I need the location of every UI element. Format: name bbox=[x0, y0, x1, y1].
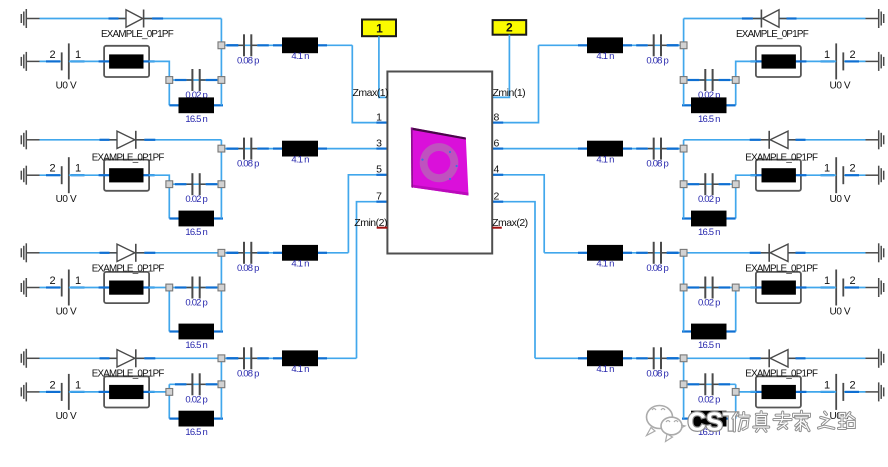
node Zmin(2) dangling bbox=[354, 217, 387, 229]
wire row1L to pin1 bbox=[352, 45, 387, 122]
wire row2R down to inductor bbox=[735, 184, 737, 218]
svg-text:2: 2 bbox=[849, 275, 855, 287]
svg-text:8: 8 bbox=[494, 111, 500, 123]
wire row4R battery to block bbox=[801, 391, 836, 393]
diode D4R bbox=[750, 349, 806, 367]
wire row1L block out bbox=[149, 61, 169, 80]
svg-text:0.08 p: 0.08 p bbox=[237, 55, 259, 66]
svg-text:0.08 p: 0.08 p bbox=[646, 55, 668, 66]
inductor L414L bbox=[273, 350, 327, 375]
voltage source V4L U0 V bbox=[46, 374, 85, 422]
wire row4R bus bbox=[683, 358, 685, 418]
svg-text:16.5 n: 16.5 n bbox=[185, 227, 207, 238]
svg-text:16.5 n: 16.5 n bbox=[185, 427, 207, 438]
svg-text:2: 2 bbox=[506, 21, 513, 35]
capacitor C084L bbox=[227, 347, 269, 379]
wire row2L bus bbox=[220, 140, 222, 219]
wire row1L battery to block bbox=[69, 60, 104, 62]
svg-text:U0 V: U0 V bbox=[830, 194, 851, 205]
svg-text:EXAMPLE_0P1PF: EXAMPLE_0P1PF bbox=[745, 263, 818, 274]
svg-text:1: 1 bbox=[824, 275, 830, 287]
block X4R EXAMPLE_0P1PF bbox=[745, 369, 818, 408]
patch antenna preview (magenta) bbox=[411, 127, 469, 195]
diode D2R bbox=[750, 131, 806, 149]
wire row2L inductor line bbox=[169, 218, 221, 220]
capacitor C022L bbox=[175, 173, 217, 205]
wire row4L branch line bbox=[221, 357, 356, 359]
junction node row3L cap tap bbox=[218, 284, 225, 291]
wire branch pin dash bbox=[226, 148, 238, 150]
wire row4R to pin2 bbox=[492, 202, 535, 359]
wire row3L to pin5 bbox=[348, 175, 387, 253]
svg-text:3: 3 bbox=[376, 137, 382, 149]
inductor L1654R bbox=[682, 411, 736, 438]
inductor L1653R bbox=[682, 324, 736, 351]
wire row2R branch line bbox=[492, 148, 683, 150]
svg-text:0.02 p: 0.02 p bbox=[698, 194, 720, 205]
wire row3R bus bbox=[683, 253, 685, 332]
watermark logo: two chat bubbles bbox=[647, 406, 686, 442]
junction node row1R branch tap bbox=[680, 42, 687, 49]
inductor L1654L bbox=[170, 411, 224, 438]
pin 3 stub bbox=[376, 148, 387, 150]
svg-text:16.5 n: 16.5 n bbox=[185, 340, 207, 351]
wire row2L branch line bbox=[221, 148, 387, 150]
block X1R EXAMPLE_0P1PF bbox=[736, 29, 809, 77]
wire row2L diode line bbox=[40, 139, 222, 141]
svg-text:2: 2 bbox=[49, 275, 55, 287]
junction node row4L cap tap bbox=[218, 381, 225, 388]
wire row1L gnd to battery bbox=[40, 60, 62, 62]
svg-text:1: 1 bbox=[824, 379, 830, 391]
svg-text:0.08 p: 0.08 p bbox=[646, 159, 668, 170]
svg-text:16.5 n: 16.5 n bbox=[185, 114, 207, 125]
wire branch pin dash bbox=[667, 357, 679, 359]
wire row1R battery to block bbox=[801, 60, 836, 62]
wire row1R to pin8 bbox=[492, 45, 538, 122]
ground (row1 diode line L) bbox=[21, 9, 39, 28]
wire row2R battery to block bbox=[801, 174, 836, 176]
wire row4R gnd to battery bbox=[843, 391, 865, 393]
ground (row3 diode line R) bbox=[866, 243, 884, 262]
svg-text:4.1 n: 4.1 n bbox=[596, 364, 614, 375]
wire row2L gnd to battery bbox=[40, 174, 62, 176]
inductor L413R bbox=[578, 245, 632, 270]
svg-text:0.08 p: 0.08 p bbox=[237, 159, 259, 170]
node Zmax(2) dangling bbox=[492, 217, 528, 229]
wire row3R battery to block bbox=[801, 287, 836, 289]
block X3R EXAMPLE_0P1PF bbox=[745, 263, 818, 303]
svg-text:U0 V: U0 V bbox=[56, 80, 77, 91]
ground (row3 battery line R) bbox=[866, 278, 884, 297]
wire row4L diode line bbox=[40, 357, 222, 359]
wire row4L cap line bbox=[169, 383, 221, 385]
svg-text:2: 2 bbox=[849, 379, 855, 391]
wire row3R branch line bbox=[544, 252, 683, 254]
svg-text:0.02 p: 0.02 p bbox=[698, 394, 720, 405]
wire branch pin dash bbox=[667, 44, 679, 46]
svg-text:EXAMPLE_0P1PF: EXAMPLE_0P1PF bbox=[736, 29, 809, 40]
svg-text:EXAMPLE_0P1PF: EXAMPLE_0P1PF bbox=[92, 152, 165, 163]
junction node row1L branch tap bbox=[218, 42, 225, 49]
ground (row3 diode line L) bbox=[21, 243, 39, 262]
inductor L1652R bbox=[682, 211, 736, 238]
wire row4L gnd to battery bbox=[40, 391, 62, 393]
svg-text:4.1 n: 4.1 n bbox=[596, 51, 614, 62]
wire row3R gnd to battery bbox=[843, 287, 865, 289]
svg-text:Zmax(1): Zmax(1) bbox=[353, 87, 389, 99]
wire row1L cap line bbox=[169, 79, 221, 81]
voltage source V2R U0 V bbox=[821, 157, 860, 205]
junction node row3L turn bbox=[166, 284, 173, 291]
inductor L411R bbox=[578, 37, 632, 62]
capacitor C081R bbox=[636, 34, 678, 66]
wire branch pin dash bbox=[226, 44, 238, 46]
junction node row1R cap tap bbox=[680, 77, 687, 84]
ground (row3 battery line L) bbox=[21, 278, 39, 297]
ground (row1 battery line L) bbox=[21, 52, 39, 71]
wire row4L bus bbox=[220, 358, 222, 418]
pin 7 stub bbox=[376, 201, 387, 203]
junction node row4R branch tap bbox=[680, 355, 687, 362]
svg-text:EXAMPLE_0P1PF: EXAMPLE_0P1PF bbox=[101, 29, 174, 40]
wire row4L block out bbox=[149, 391, 169, 393]
diode D2L bbox=[100, 131, 156, 149]
voltage source V1R U0 V bbox=[821, 43, 860, 91]
svg-text:2: 2 bbox=[849, 163, 855, 175]
svg-text:CST: CST bbox=[688, 409, 739, 437]
wire row2R inductor line bbox=[684, 218, 736, 220]
wire row1R down to inductor bbox=[735, 80, 737, 105]
diode D3R bbox=[750, 244, 806, 262]
capacitor C024L bbox=[175, 373, 217, 405]
wire row2R gnd to battery bbox=[843, 174, 865, 176]
voltage source V3L U0 V bbox=[46, 270, 85, 318]
wire branch pin dash bbox=[226, 252, 238, 254]
junction node row4L branch tap bbox=[218, 355, 225, 362]
svg-text:16.5 n: 16.5 n bbox=[698, 340, 720, 351]
diode D4L bbox=[100, 349, 156, 367]
capacitor C082L bbox=[227, 138, 269, 170]
block X3L EXAMPLE_0P1PF bbox=[92, 263, 165, 303]
svg-text:1: 1 bbox=[75, 275, 81, 287]
svg-text:6: 6 bbox=[494, 137, 500, 149]
capacitor C082R bbox=[636, 138, 678, 170]
svg-text:U0 V: U0 V bbox=[830, 307, 851, 318]
svg-text:1: 1 bbox=[376, 111, 382, 123]
ground (row2 diode line L) bbox=[21, 130, 39, 149]
svg-text:Zmin(1): Zmin(1) bbox=[493, 87, 526, 99]
wire branch pin dash bbox=[226, 357, 238, 359]
diode D1L bbox=[109, 10, 164, 28]
svg-text:2: 2 bbox=[849, 49, 855, 61]
wire row4R block out bbox=[736, 391, 756, 393]
wire row4L cap/ind vertical bbox=[168, 384, 170, 418]
junction node row3R turn bbox=[732, 284, 739, 291]
wire row1R inductor line bbox=[684, 104, 736, 106]
wire row2L battery to block bbox=[69, 174, 104, 176]
wire row1R gnd to battery bbox=[843, 60, 865, 62]
svg-text:EXAMPLE_0P1PF: EXAMPLE_0P1PF bbox=[92, 369, 165, 380]
junction node row4R turn bbox=[732, 389, 739, 396]
wire row1L diode line bbox=[40, 18, 222, 20]
svg-text:EXAMPLE_0P1PF: EXAMPLE_0P1PF bbox=[92, 263, 165, 274]
svg-text:U0 V: U0 V bbox=[56, 411, 77, 422]
junction node row2L cap tap bbox=[218, 181, 225, 188]
wire row4L to pin7 bbox=[357, 202, 388, 359]
wire row4L inductor line bbox=[169, 418, 221, 420]
junction node row1R turn bbox=[732, 77, 739, 84]
svg-text:2: 2 bbox=[49, 49, 55, 61]
inductor L412R bbox=[578, 141, 632, 166]
svg-text:5: 5 bbox=[376, 164, 382, 176]
capacitor C081L bbox=[227, 34, 269, 66]
svg-text:1: 1 bbox=[824, 49, 830, 61]
svg-text:2: 2 bbox=[49, 163, 55, 175]
junction node row2R branch tap bbox=[680, 145, 687, 152]
capacitor C022R bbox=[688, 173, 730, 205]
block X2L EXAMPLE_0P1PF bbox=[92, 152, 165, 190]
svg-text:0.08 p: 0.08 p bbox=[237, 368, 259, 379]
ground (row2 diode line R) bbox=[866, 130, 884, 149]
wire row2R block out bbox=[736, 175, 756, 184]
svg-text:1: 1 bbox=[75, 379, 81, 391]
port 2 bbox=[493, 20, 527, 35]
junction node row2R turn bbox=[732, 181, 739, 188]
inductor L414R bbox=[578, 350, 632, 375]
wire branch pin dash bbox=[667, 148, 679, 150]
pin 5 stub bbox=[376, 174, 387, 176]
wire row2L block out bbox=[149, 175, 169, 184]
pin 6 stub bbox=[492, 148, 503, 150]
svg-text:1: 1 bbox=[75, 49, 81, 61]
ground (row4 battery line R) bbox=[866, 382, 884, 401]
diode D3L bbox=[100, 244, 156, 262]
svg-text:4: 4 bbox=[494, 164, 500, 176]
svg-text:1: 1 bbox=[75, 163, 81, 175]
wire row4R diode line bbox=[684, 357, 866, 359]
junction node row1L turn bbox=[166, 77, 173, 84]
svg-text:U0 V: U0 V bbox=[56, 307, 77, 318]
diode D1R bbox=[742, 10, 797, 28]
junction node row2L branch tap bbox=[218, 145, 225, 152]
inductor L412L bbox=[273, 141, 327, 166]
junction node row2R cap tap bbox=[680, 181, 687, 188]
wire row3L down to inductor bbox=[168, 288, 170, 332]
wire port1 to Zmax(1) bbox=[379, 36, 388, 97]
capacitor C021L bbox=[175, 69, 217, 101]
wire row2R cap line bbox=[684, 183, 736, 185]
wire row4L battery to block bbox=[69, 391, 104, 393]
wire row1R branch line bbox=[539, 44, 684, 46]
svg-text:0.02 p: 0.02 p bbox=[698, 298, 720, 309]
wire row1R cap line bbox=[684, 79, 736, 81]
block X1L EXAMPLE_0P1PF bbox=[99, 29, 174, 77]
wire row1L bus bbox=[220, 19, 222, 106]
block X2R EXAMPLE_0P1PF bbox=[745, 152, 818, 190]
ground (row2 battery line R) bbox=[866, 166, 884, 185]
svg-text:1: 1 bbox=[824, 163, 830, 175]
svg-text:4.1 n: 4.1 n bbox=[291, 154, 309, 165]
wire row3R block out bbox=[684, 287, 756, 289]
junction node row4L turn bbox=[166, 389, 173, 396]
op-amp U1 central S-parameter block MWSSCHEM1 bbox=[387, 72, 492, 254]
svg-text:2: 2 bbox=[49, 379, 55, 391]
wire row4R branch line bbox=[535, 357, 684, 359]
pin 2 stub bbox=[492, 201, 503, 203]
svg-text:0.02 p: 0.02 p bbox=[185, 394, 207, 405]
wire row2R bus bbox=[683, 140, 685, 219]
wire row1L down to inductor bbox=[168, 80, 170, 105]
wire row1R bus bbox=[683, 19, 685, 106]
wire row2L cap line bbox=[169, 183, 221, 185]
svg-text:4.1 n: 4.1 n bbox=[291, 51, 309, 62]
wire row3R inductor line bbox=[684, 331, 736, 333]
inductor L413L bbox=[273, 245, 327, 270]
ground (row1 battery line R) bbox=[866, 52, 884, 71]
svg-text:4.1 n: 4.1 n bbox=[291, 364, 309, 375]
capacitor C084R bbox=[636, 347, 678, 379]
capacitor C021R bbox=[688, 69, 730, 101]
svg-text:0.08 p: 0.08 p bbox=[646, 368, 668, 379]
wire row2L down to inductor bbox=[168, 184, 170, 218]
svg-text:2: 2 bbox=[494, 190, 500, 202]
wire port2 to Zmin(1) bbox=[492, 35, 509, 98]
wire row3L block out bbox=[149, 287, 221, 289]
wire row3L gnd to battery bbox=[40, 287, 62, 289]
voltage source V4R U0 V bbox=[821, 374, 860, 422]
port 1 bbox=[362, 20, 396, 37]
inductor L1652L bbox=[170, 211, 224, 238]
pin 4 stub bbox=[492, 174, 503, 176]
wire row3R to pin4 bbox=[492, 175, 544, 253]
svg-text:0.08 p: 0.08 p bbox=[646, 263, 668, 274]
svg-text:4.1 n: 4.1 n bbox=[596, 154, 614, 165]
svg-text:0.08 p: 0.08 p bbox=[237, 263, 259, 274]
wire row3L battery to block bbox=[69, 287, 104, 289]
junction node row1L cap tap bbox=[218, 77, 225, 84]
wire row3L bus bbox=[220, 253, 222, 332]
wire row3R down to inductor bbox=[735, 288, 737, 332]
svg-text:1: 1 bbox=[376, 21, 383, 35]
junction node row3L branch tap bbox=[218, 249, 225, 256]
voltage source V3R U0 V bbox=[821, 270, 860, 318]
wire row4R inductor line bbox=[684, 418, 736, 420]
ground (row4 battery line L) bbox=[21, 382, 39, 401]
pin 8 stub bbox=[492, 121, 503, 123]
svg-text:16.5 n: 16.5 n bbox=[698, 114, 720, 125]
capacitor C024R bbox=[688, 373, 730, 405]
inductor L411L bbox=[273, 37, 327, 62]
svg-text:EXAMPLE_0P1PF: EXAMPLE_0P1PF bbox=[745, 369, 818, 380]
wire row4R cap/ind vertical bbox=[735, 384, 737, 418]
wire row3R diode line bbox=[684, 252, 866, 254]
svg-text:4.1 n: 4.1 n bbox=[291, 259, 309, 270]
svg-text:4.1 n: 4.1 n bbox=[596, 259, 614, 270]
inductor L1651R bbox=[682, 97, 736, 124]
capacitor C083L bbox=[227, 242, 269, 274]
junction node row2L turn bbox=[166, 181, 173, 188]
ground (row2 battery line L) bbox=[21, 166, 39, 185]
wire branch pin dash bbox=[667, 252, 679, 254]
wire row3L diode line bbox=[40, 252, 222, 254]
svg-text:7: 7 bbox=[376, 190, 382, 202]
svg-text:0.02 p: 0.02 p bbox=[185, 298, 207, 309]
inductor L1651L bbox=[170, 97, 224, 124]
wire row2R diode line bbox=[684, 139, 866, 141]
wire row1L inductor line bbox=[169, 104, 221, 106]
capacitor C023R bbox=[688, 277, 730, 309]
pin 1 stub bbox=[376, 121, 387, 123]
inductor L1653L bbox=[170, 324, 224, 351]
ground (row1 diode line R) bbox=[866, 9, 884, 28]
capacitor C023L bbox=[175, 277, 217, 309]
voltage source V2L U0 V bbox=[46, 157, 85, 205]
wire row1L branch line bbox=[221, 44, 352, 46]
wire row3L branch line bbox=[221, 252, 348, 254]
svg-text:0.02 p: 0.02 p bbox=[185, 194, 207, 205]
block X4L EXAMPLE_0P1PF bbox=[92, 369, 165, 408]
capacitor C083R bbox=[636, 242, 678, 274]
svg-text:U0 V: U0 V bbox=[830, 80, 851, 91]
junction node row3R branch tap bbox=[680, 249, 687, 256]
wire row3L inductor line bbox=[169, 331, 221, 333]
watermark chinese characters 仿真专家之路 (drawn strokes) bbox=[733, 411, 854, 431]
ground (row4 diode line R) bbox=[866, 349, 884, 368]
svg-text:EXAMPLE_0P1PF: EXAMPLE_0P1PF bbox=[745, 152, 818, 163]
svg-text:U0 V: U0 V bbox=[56, 194, 77, 205]
wire row1R diode line bbox=[684, 18, 866, 20]
junction node row3R cap tap bbox=[680, 284, 687, 291]
wire row1R block out bbox=[736, 61, 756, 80]
ground (row4 diode line L) bbox=[21, 349, 39, 368]
voltage source V1L U0 V bbox=[46, 43, 85, 91]
junction node row4R cap tap bbox=[680, 381, 687, 388]
wire row4R cap line bbox=[684, 383, 736, 385]
svg-text:16.5 n: 16.5 n bbox=[698, 227, 720, 238]
